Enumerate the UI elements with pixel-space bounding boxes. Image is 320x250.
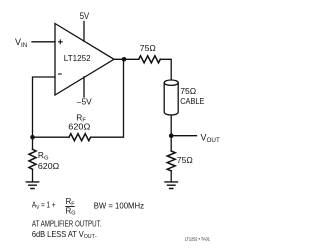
wire node to bottom resistor [170, 136, 172, 151]
svg-text:75Ω: 75Ω [180, 86, 197, 96]
svg-text:CABLE: CABLE [180, 96, 204, 106]
resistor RG 620 ohm zigzag [29, 149, 36, 169]
svg-text:5V: 5V [80, 10, 90, 21]
wire RG from node [32, 137, 34, 149]
node: output junction [122, 57, 127, 62]
node: inverting input junction [30, 135, 35, 140]
svg-text:AT AMPLIFIER OUTPUT.: AT AMPLIFIER OUTPUT. [32, 220, 102, 229]
svg-text:LT1252: LT1252 [64, 53, 91, 63]
ground right [165, 182, 177, 189]
wire RG to ground left [32, 169, 34, 181]
cable 75 ohm coax cylinder [164, 83, 178, 115]
svg-text:–5V: –5V [77, 97, 92, 107]
wire resistor to cable [160, 59, 171, 80]
resistor RF 620 ohm zigzag [69, 134, 91, 141]
svg-text:LT1252 • TA01: LT1252 • TA01 [185, 236, 211, 241]
wire 5V supply to op-amp [83, 22, 85, 42]
op-amp U1 LT1252 triangle [55, 24, 114, 96]
wire VIN to + input [32, 41, 55, 43]
svg-text:620Ω: 620Ω [38, 161, 60, 171]
wire cable to VOUT node [170, 115, 172, 136]
wire resistor to ground right [170, 171, 172, 182]
op-amp + pin [58, 39, 63, 44]
node: VOUT junction [169, 133, 174, 138]
wire - input feedback left leg [33, 77, 56, 137]
resistor R75 top zigzag [139, 56, 161, 63]
wire VOUT stub [171, 135, 196, 137]
wire RF right segment up to output node [91, 59, 124, 137]
svg-text:75Ω: 75Ω [177, 155, 194, 165]
svg-text:620Ω: 620Ω [68, 122, 91, 132]
wire RF left segment [33, 136, 70, 138]
svg-text:BW = 100MHz: BW = 100MHz [94, 202, 144, 211]
wire -5V supply from op-amp [83, 77, 85, 97]
ground left [26, 182, 38, 189]
op-amp - pin [58, 73, 62, 75]
wire op-amp output [114, 58, 139, 60]
svg-text:AV = 1 +: AV = 1 + [32, 201, 56, 211]
resistor R75 termination zigzag [167, 151, 175, 171]
svg-text:75Ω: 75Ω [140, 43, 157, 53]
